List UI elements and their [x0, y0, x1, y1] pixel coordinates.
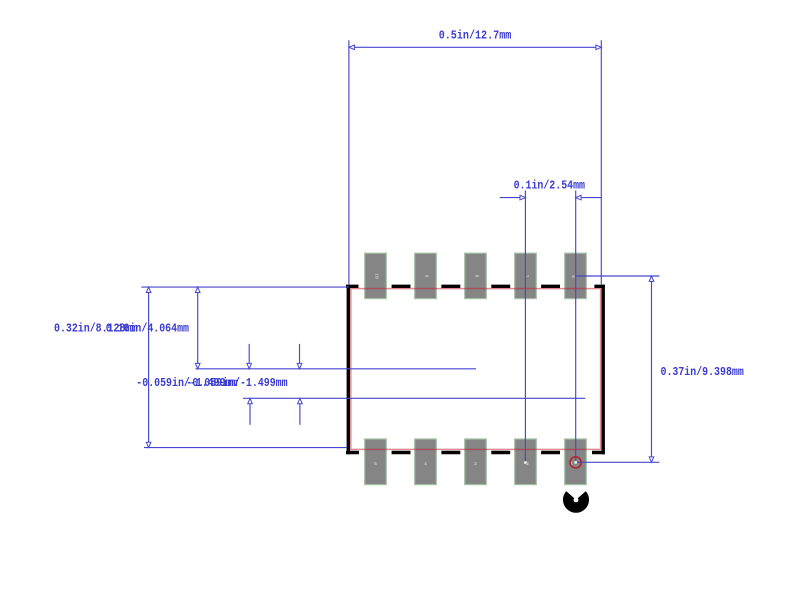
pad pin4: [415, 439, 437, 485]
arrowhead up leader 1: [248, 398, 253, 403]
leader tail up 1: [249, 404, 251, 425]
pad pin2: [515, 439, 537, 485]
arrowhead up 0.37in: [649, 276, 654, 281]
svg-text:9: 9: [424, 275, 430, 278]
arrowhead down 0.16in: [195, 363, 200, 368]
svg-text:8: 8: [474, 275, 480, 278]
svg-text:6: 6: [572, 274, 575, 280]
arrowhead up leader 2: [298, 398, 303, 403]
pad pin1: [565, 439, 587, 485]
svg-text:0.16in/4.064mm: 0.16in/4.064mm: [106, 321, 189, 335]
arrowhead down 0.32in: [146, 442, 151, 447]
arrow tail right 0.1in: [581, 197, 601, 199]
arrowhead up 0.16in: [195, 287, 200, 292]
arrowhead left-pointing 0.1in: [576, 195, 581, 200]
arrowhead left 0.5in: [349, 45, 354, 50]
dimension line 0.16in: [197, 293, 199, 364]
extension line right of 0.5in dimension: [600, 40, 602, 284]
pad pin5: [365, 439, 387, 485]
pad pin6: [565, 253, 587, 298]
arrowhead up 0.32in: [146, 287, 151, 292]
svg-text:5: 5: [374, 461, 377, 467]
package outline top edge (dashed): [346, 285, 605, 288]
dimension line 0.32in: [148, 293, 150, 443]
svg-text:0.1in/2.54mm: 0.1in/2.54mm: [514, 178, 585, 192]
endpoint dot pad9: [524, 461, 526, 463]
extension line top left dims: [141, 286, 348, 288]
svg-text:0.37in/9.398mm: 0.37in/9.398mm: [661, 365, 744, 379]
arrowhead right-pointing 0.1in: [520, 195, 525, 200]
origin marker hole: [574, 498, 579, 503]
arrowhead down leader 2: [297, 363, 302, 368]
extension line bottom of 0.37in: [576, 461, 660, 463]
package centerline: [196, 368, 477, 370]
svg-text:7: 7: [524, 275, 530, 278]
pad pin7: [515, 253, 537, 298]
leader tail down 1: [248, 344, 250, 364]
extension line bottom of 0.32in: [144, 447, 347, 449]
svg-text:4: 4: [424, 461, 427, 467]
extension line top of 0.37in: [576, 275, 660, 277]
extension line right of 0.1in dimension: [575, 191, 577, 463]
origin marker (notched circle): [563, 491, 589, 513]
pad pin10: [365, 253, 387, 298]
endpoint dot pin1: [575, 461, 577, 463]
extension line left of 0.1in dimension: [524, 191, 526, 463]
arrowhead down leader 1: [247, 363, 252, 368]
svg-text:3: 3: [474, 461, 477, 467]
pad pin9: [415, 253, 437, 298]
svg-text:-0.059in/-1.499mm: -0.059in/-1.499mm: [186, 376, 287, 390]
package outline right edge (solid): [602, 285, 605, 455]
pin1 silkscreen circle: [570, 457, 581, 468]
offset reference line: [243, 397, 585, 399]
arrow tail left 0.1in: [500, 197, 520, 199]
svg-text:0.5in/12.7mm: 0.5in/12.7mm: [439, 29, 512, 43]
pad pin8: [465, 253, 487, 298]
dimension line 0.5in: [355, 46, 596, 48]
package outline left edge (solid): [347, 285, 350, 455]
package outline bottom edge (dashed): [346, 451, 605, 454]
extension line left of 0.5in dimension: [348, 40, 350, 284]
leader tail up 2: [299, 404, 301, 425]
arrowhead right 0.5in: [596, 45, 601, 50]
leader tail down 2: [299, 344, 301, 364]
silkscreen rectangle: [351, 289, 601, 450]
dimension line 0.37in: [651, 281, 653, 457]
svg-text:10: 10: [374, 273, 380, 279]
pad pin3: [465, 439, 487, 485]
arrowhead down 0.37in: [649, 457, 654, 462]
